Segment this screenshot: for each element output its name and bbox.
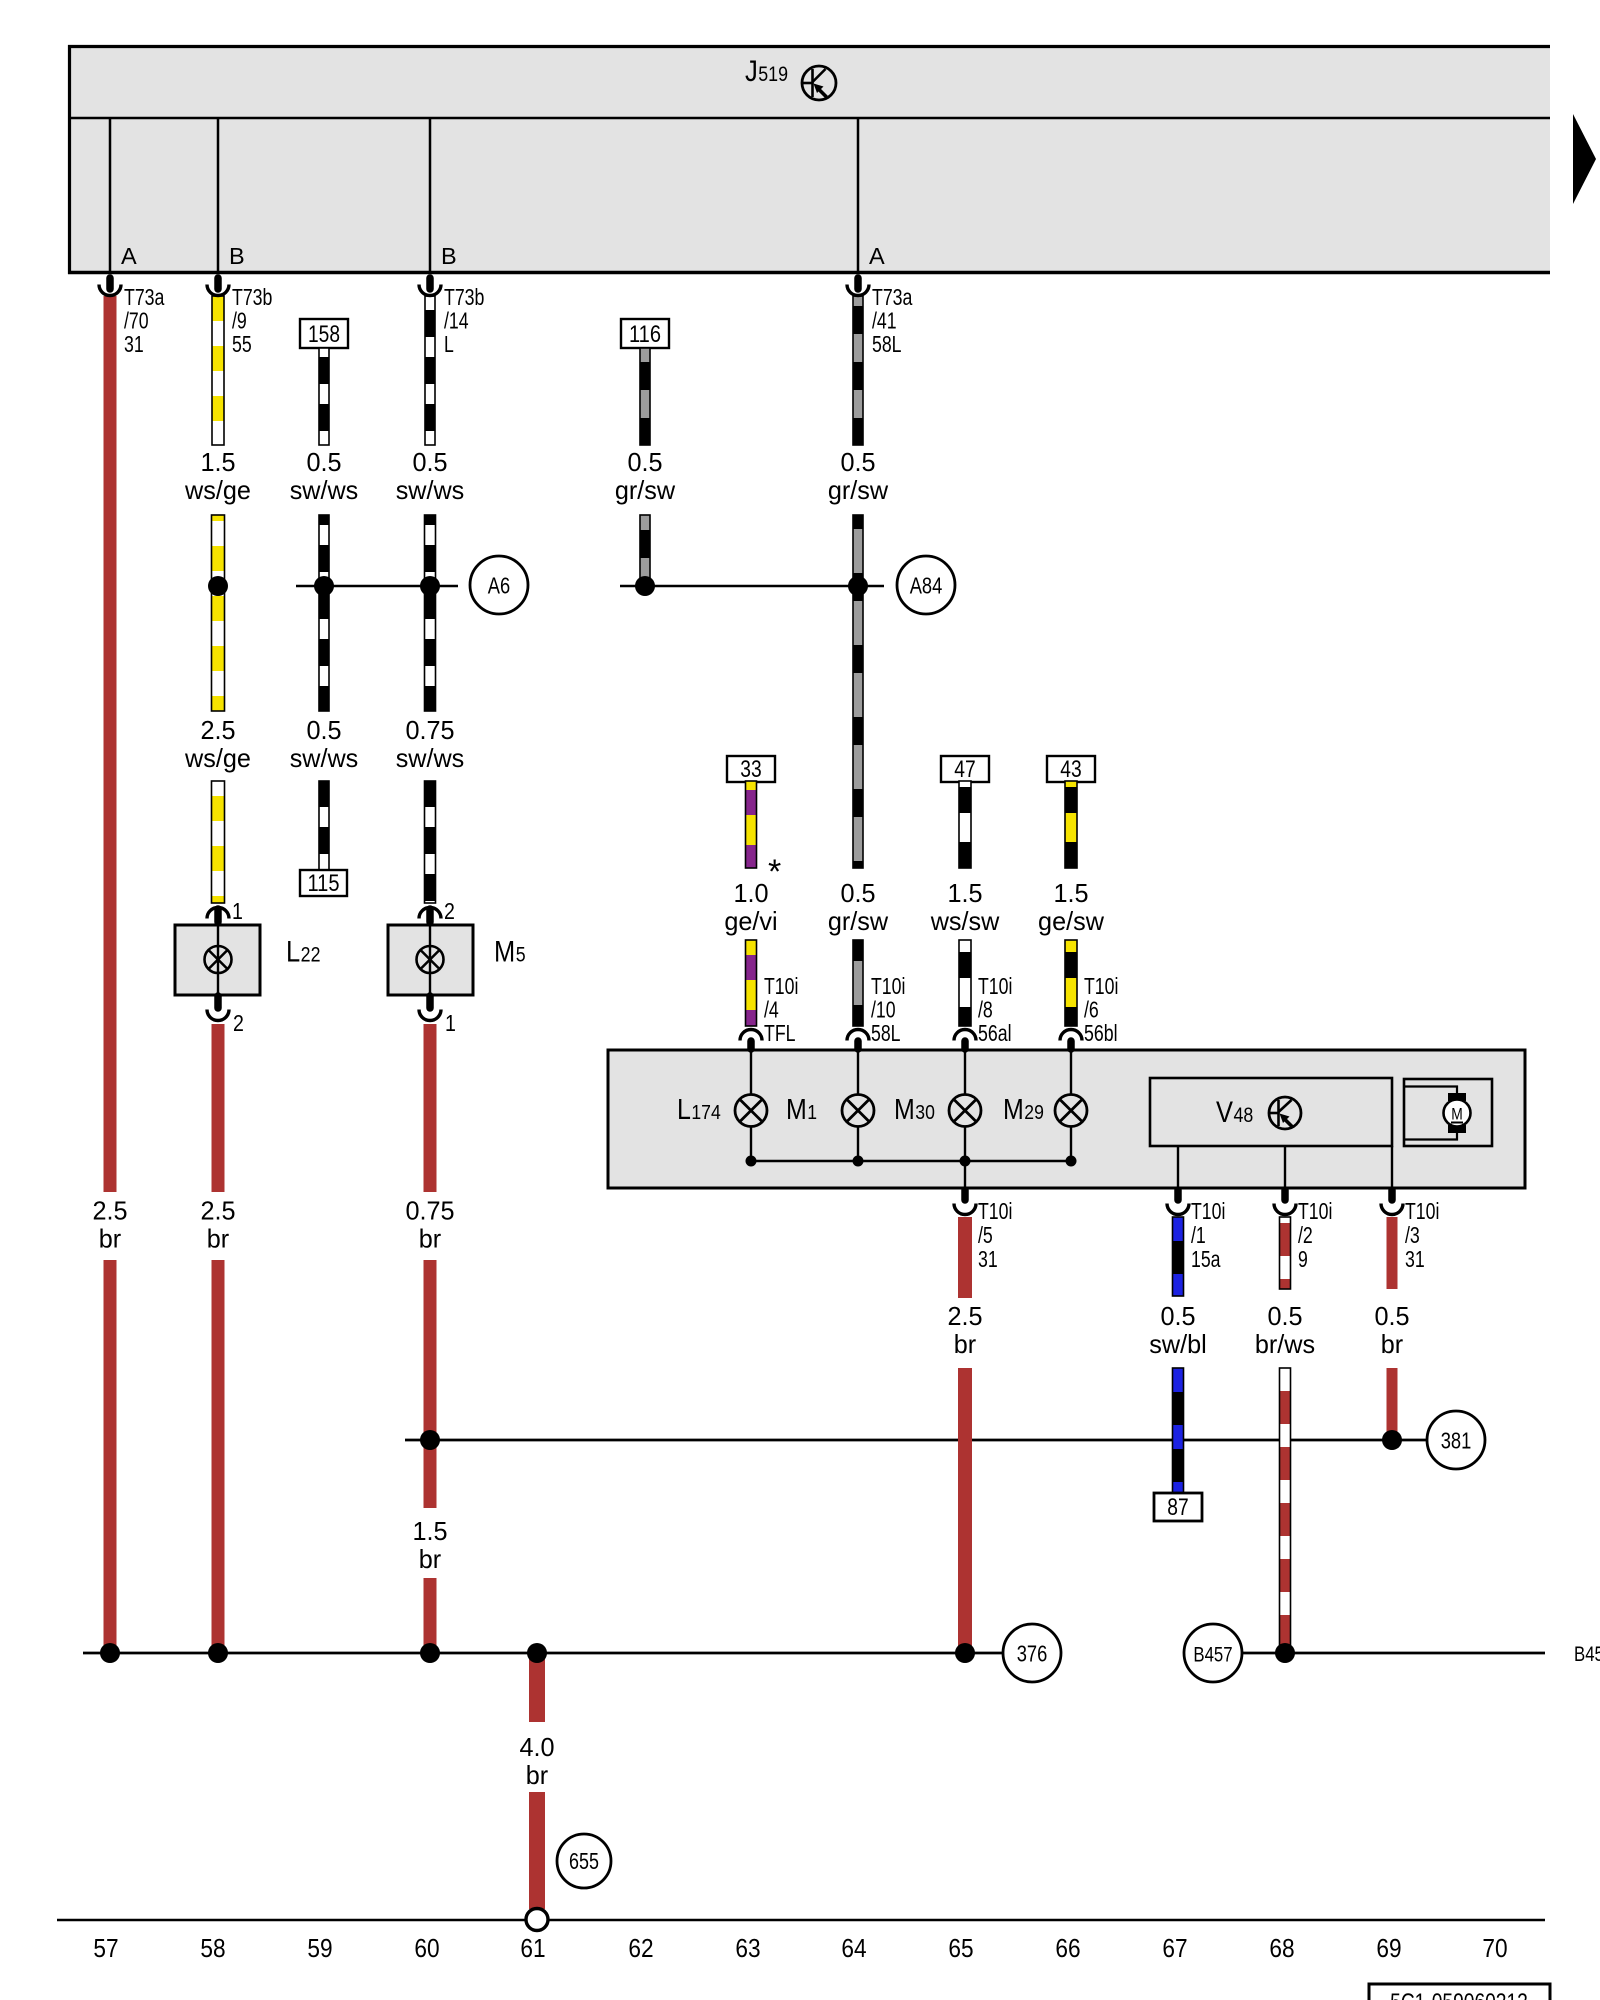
wire 1.5 ws/ge col58 <box>212 296 224 445</box>
svg-text:1.5: 1.5 <box>947 878 982 908</box>
svg-text:ws/ge: ws/ge <box>184 743 251 773</box>
junction ground bus col65 <box>955 1643 975 1663</box>
arrow continuation right <box>1573 114 1596 204</box>
svg-text:57: 57 <box>93 1933 118 1963</box>
lamp L174 daytime running light <box>735 1095 767 1127</box>
connector T10i/4 TFL <box>740 1030 762 1041</box>
wire 0.75 sw/ws col60 <box>425 515 436 711</box>
svg-text:381: 381 <box>1441 1428 1472 1454</box>
svg-text:2.5: 2.5 <box>947 1301 982 1331</box>
wire 2.5 br col58 lower <box>212 1260 225 1654</box>
svg-text:B457: B457 <box>1193 1643 1232 1667</box>
svg-text:519: 519 <box>758 63 788 86</box>
wire 1.0 ge/vi col63 upper <box>746 781 757 868</box>
connector T10i/1 15a <box>1174 1190 1182 1200</box>
svg-text:T73b: T73b <box>232 284 272 310</box>
svg-text:1: 1 <box>232 898 243 924</box>
svg-text:0.5: 0.5 <box>1374 1301 1409 1331</box>
svg-text:2.5: 2.5 <box>92 1196 127 1226</box>
svg-text:br: br <box>99 1224 122 1254</box>
wire connection line A84 <box>620 585 884 588</box>
svg-text:67: 67 <box>1162 1933 1187 1963</box>
wire 0.5 sw/ws col59 lower <box>319 781 329 871</box>
svg-text:/2: /2 <box>1298 1222 1313 1248</box>
svg-text:/5: /5 <box>978 1222 993 1248</box>
svg-text:43: 43 <box>1060 756 1081 783</box>
lamp M5 number plate light <box>419 908 441 919</box>
connector T73b/14 pin L <box>426 278 434 289</box>
svg-text:/10: /10 <box>871 997 896 1023</box>
svg-text:56al: 56al <box>978 1020 1012 1046</box>
connector T10i/8 56al <box>954 1030 976 1041</box>
wire ground bus B457 segment <box>1242 1652 1545 1655</box>
svg-text:0.5: 0.5 <box>840 447 875 477</box>
node 376 circle <box>1003 1624 1061 1682</box>
svg-text:T10i: T10i <box>978 973 1012 999</box>
connector T73a/70 pin 31 <box>106 278 114 289</box>
junction ground bus col58 <box>208 1643 228 1663</box>
wire 0.5 gr/sw col64 lower <box>853 940 863 1026</box>
svg-text:A84: A84 <box>910 573 943 599</box>
wire lamp drop M1 <box>857 1051 859 1095</box>
svg-text:gr/sw: gr/sw <box>828 475 889 505</box>
terminal box 33 <box>727 756 775 782</box>
svg-text:A6: A6 <box>488 573 510 599</box>
wire 4.0 br col61 upper <box>529 1653 545 1722</box>
svg-text:*: * <box>768 853 781 891</box>
wire J519 internal pin B col60 <box>429 118 432 272</box>
svg-text:22: 22 <box>301 944 321 967</box>
svg-text:sw/ws: sw/ws <box>396 475 465 505</box>
svg-text:br: br <box>419 1224 442 1254</box>
svg-text:0.5: 0.5 <box>306 715 341 745</box>
svg-text:15a: 15a <box>1191 1246 1221 1272</box>
svg-text:T10i: T10i <box>978 1198 1012 1224</box>
svg-text:br: br <box>207 1224 230 1254</box>
svg-text:5C1-059060212: 5C1-059060212 <box>1390 1989 1528 2000</box>
svg-text:376: 376 <box>1017 1641 1048 1667</box>
svg-text:55: 55 <box>232 331 252 357</box>
connector T10i/5 31 <box>961 1190 969 1200</box>
junction ground bus col57 <box>100 1643 120 1663</box>
wire J519 internal pin A col57 <box>109 118 112 272</box>
svg-text:br/ws: br/ws <box>1255 1329 1315 1359</box>
wire 1.5 ge/sw col66 upper <box>1065 781 1077 868</box>
wire 0.5 br/ws col68 lower <box>1280 1368 1291 1654</box>
svg-text:58L: 58L <box>872 331 902 357</box>
svg-text:2: 2 <box>233 1010 244 1036</box>
svg-text:br: br <box>526 1760 549 1790</box>
bottom coordinate axis line <box>57 1919 1545 1922</box>
svg-text:sw/ws: sw/ws <box>290 743 359 773</box>
wire 0.5 br col69 upper <box>1387 1217 1398 1289</box>
svg-text:69: 69 <box>1376 1933 1401 1963</box>
svg-text:A: A <box>121 243 137 269</box>
wire J519 internal pin B col58 <box>217 118 220 272</box>
svg-text:4.0: 4.0 <box>519 1732 554 1762</box>
node A84 circle <box>897 556 955 614</box>
svg-text:T73b: T73b <box>444 284 484 310</box>
wire 2.5 br col65 upper <box>958 1217 972 1298</box>
node 381 circle <box>1427 1411 1485 1469</box>
wire 2.5 br col57 lower <box>104 1260 117 1654</box>
svg-text:116: 116 <box>629 321 661 348</box>
wire 0.5 gr/sw col62 upper <box>640 348 650 445</box>
wire 1.5 ge/sw col66 lower <box>1065 940 1077 1026</box>
svg-text:63: 63 <box>735 1933 760 1963</box>
wire 0.75 br col60 from M5 <box>424 1024 437 1192</box>
scale numbers 57-70 <box>93 1933 1507 1963</box>
wire 0.75 br col60 mid <box>424 1260 437 1508</box>
svg-text:1.5: 1.5 <box>1053 878 1088 908</box>
motor symbol M box <box>1404 1079 1492 1146</box>
wire 0.5 sw/bl col67 lower <box>1173 1368 1184 1494</box>
node 655 circle <box>557 1834 611 1888</box>
svg-text:68: 68 <box>1269 1933 1294 1963</box>
svg-text:M: M <box>494 936 515 969</box>
svg-text:M: M <box>786 1094 807 1126</box>
svg-text:1.5: 1.5 <box>412 1516 447 1546</box>
svg-text:66: 66 <box>1055 1933 1080 1963</box>
terminal box 116 <box>621 319 669 348</box>
terminal box 43 <box>1047 756 1095 782</box>
lamp L22 number plate light <box>207 908 229 919</box>
svg-text:sw/bl: sw/bl <box>1149 1329 1207 1359</box>
svg-text:0.75: 0.75 <box>405 1196 454 1226</box>
svg-text:1: 1 <box>807 1101 817 1124</box>
connector T73b/9 pin 55 <box>214 278 222 289</box>
svg-text:0.5: 0.5 <box>840 878 875 908</box>
svg-text:31: 31 <box>978 1246 998 1272</box>
wire 1.5 br col60 lower <box>424 1578 437 1654</box>
svg-text:174: 174 <box>691 1101 720 1124</box>
wire 0.5 sw/ws col60 upper <box>425 296 435 445</box>
wire 2.5 ws/ge col58 <box>212 515 225 711</box>
svg-text:58L: 58L <box>871 1020 901 1046</box>
svg-text:158: 158 <box>308 321 340 348</box>
svg-text:0.5: 0.5 <box>412 447 447 477</box>
svg-text:/9: /9 <box>232 308 247 334</box>
svg-text:31: 31 <box>1405 1246 1425 1272</box>
svg-text:M: M <box>1003 1094 1024 1126</box>
svg-text:L: L <box>677 1094 691 1126</box>
svg-text:0.5: 0.5 <box>1160 1301 1195 1331</box>
svg-text:T73a: T73a <box>124 284 165 310</box>
svg-text:87: 87 <box>1167 1494 1188 1521</box>
svg-text:M: M <box>1451 1105 1463 1124</box>
svg-text:61: 61 <box>520 1933 545 1963</box>
wire 2.5 br col57 upper <box>104 296 117 1192</box>
control unit J519 onboard supply control unit box <box>68 45 1550 274</box>
connector T10i/3 31 <box>1388 1190 1396 1200</box>
wire 0.5 gr/sw col62 lower <box>640 515 650 586</box>
svg-text:1.5: 1.5 <box>200 447 235 477</box>
junction A84 line col62 <box>635 576 655 596</box>
junction A6 line col59 <box>314 576 334 596</box>
connector T10i/2 9 <box>1281 1190 1289 1200</box>
lamp M29 <box>1055 1095 1087 1127</box>
svg-text:T10i: T10i <box>871 973 905 999</box>
svg-text:br: br <box>954 1329 977 1359</box>
svg-text:0.5: 0.5 <box>306 447 341 477</box>
svg-text:70: 70 <box>1482 1933 1507 1963</box>
svg-text:L: L <box>444 331 454 357</box>
svg-text:ge/sw: ge/sw <box>1038 906 1104 936</box>
svg-text:47: 47 <box>954 756 975 783</box>
junction B457 bus col68 <box>1275 1643 1295 1663</box>
svg-text:T10i: T10i <box>1084 973 1118 999</box>
wire 0.5 gr/sw col64 middle <box>853 515 863 868</box>
svg-text:30: 30 <box>915 1101 935 1124</box>
junction ground bus col60 <box>420 1643 440 1663</box>
svg-text:62: 62 <box>628 1933 653 1963</box>
svg-text:sw/ws: sw/ws <box>396 743 465 773</box>
drawing number box 5C1-059060212 <box>1369 1984 1550 2000</box>
junction on ws/ge col58 <box>208 576 228 596</box>
wire 2.5 br col65 lower <box>958 1368 972 1654</box>
svg-text:sw/ws: sw/ws <box>290 475 359 505</box>
control unit V48 headlight range motor <box>1150 1078 1392 1146</box>
svg-text:65: 65 <box>948 1933 973 1963</box>
svg-text:655: 655 <box>569 1848 599 1874</box>
node B457 circle <box>1184 1624 1242 1682</box>
wire 0.5 gr/sw col64 upper <box>853 296 863 445</box>
lamp M1 left tail light <box>842 1095 874 1127</box>
svg-text:33: 33 <box>740 756 761 783</box>
svg-text:/6: /6 <box>1084 997 1099 1023</box>
wire 1.5 ws/sw col65 upper <box>959 781 971 868</box>
terminal box 158 <box>300 319 348 348</box>
junction A6 line col60 <box>420 576 440 596</box>
wire 0.75 sw/ws col60 to M5 <box>425 781 436 903</box>
wire 0.5 br col69 lower <box>1387 1368 1398 1440</box>
connector T10i/10 58L <box>847 1030 869 1041</box>
terminal box 47 <box>941 756 989 782</box>
svg-text:T10i: T10i <box>1298 1198 1332 1224</box>
svg-text:T10i: T10i <box>1191 1198 1225 1224</box>
svg-text:/8: /8 <box>978 997 993 1023</box>
wire internal bus of lamps <box>751 1160 1071 1162</box>
wire connection line A6 <box>296 585 458 588</box>
junction ground bus col61 <box>527 1643 547 1663</box>
wire 1.5 ws/sw col65 lower <box>959 940 971 1026</box>
junction dots lamp bus <box>746 1156 757 1167</box>
svg-text:TFL: TFL <box>764 1020 796 1046</box>
junction 381 line col69 <box>1382 1430 1402 1450</box>
svg-text:5: 5 <box>516 944 526 967</box>
wire V48 drop to T10i/1 <box>1177 1146 1179 1188</box>
wire lamp drop L174 <box>750 1051 752 1095</box>
svg-text:T10i: T10i <box>764 973 798 999</box>
svg-text:/70: /70 <box>124 308 149 334</box>
svg-text:48: 48 <box>1234 1104 1254 1127</box>
svg-text:B: B <box>441 243 457 269</box>
svg-text:B: B <box>229 243 245 269</box>
junction 381 line col60 <box>420 1430 440 1450</box>
lamp M30 brake light <box>949 1095 981 1127</box>
wire connection line to 381 <box>405 1439 1427 1442</box>
svg-text:0.5: 0.5 <box>627 447 662 477</box>
wire 1.0 ge/vi col63 lower <box>746 940 757 1026</box>
wire J519 internal pin A col64 <box>857 118 860 272</box>
wire 0.5 sw/bl col67 upper <box>1173 1217 1184 1296</box>
svg-text:/1: /1 <box>1191 1222 1206 1248</box>
svg-text:60: 60 <box>414 1933 439 1963</box>
svg-text:br: br <box>1381 1329 1404 1359</box>
svg-text:ge/vi: ge/vi <box>724 906 777 936</box>
svg-text:br: br <box>419 1544 442 1574</box>
svg-text:T73a: T73a <box>872 284 913 310</box>
svg-text:J: J <box>745 55 758 88</box>
svg-text:/4: /4 <box>764 997 779 1023</box>
svg-text:/41: /41 <box>872 308 897 334</box>
svg-text:A: A <box>869 243 885 269</box>
ground terminal open circle <box>526 1909 548 1931</box>
wire 0.5 sw/ws col59 middle <box>319 515 329 711</box>
wire V48 drop to T10i/2 <box>1284 1146 1286 1188</box>
svg-text:V: V <box>1216 1096 1233 1129</box>
svg-text:/3: /3 <box>1405 1222 1420 1248</box>
wire 2.5 br col58 from L22 <box>212 1024 225 1192</box>
component box light unit with L174 M1 M30 M29 V48 <box>608 1050 1525 1188</box>
svg-text:1.0: 1.0 <box>733 878 768 908</box>
svg-text:T10i: T10i <box>1405 1198 1439 1224</box>
svg-text:59: 59 <box>307 1933 332 1963</box>
svg-text:2.5: 2.5 <box>200 715 235 745</box>
svg-text:64: 64 <box>841 1933 866 1963</box>
svg-text:gr/sw: gr/sw <box>615 475 676 505</box>
terminal box 115 <box>300 870 347 896</box>
wire ground bus to 376 <box>83 1652 1003 1655</box>
connector T10i/6 56bl <box>1060 1030 1082 1041</box>
wire lamp drop M29 <box>1070 1051 1072 1095</box>
node A6 circle <box>470 556 528 614</box>
wire lamp drop M30 <box>964 1051 966 1095</box>
svg-text:56bl: 56bl <box>1084 1020 1118 1046</box>
svg-text:ws/ge: ws/ge <box>184 475 251 505</box>
svg-text:ws/sw: ws/sw <box>930 906 1000 936</box>
junction A84 line col64 <box>848 576 868 596</box>
svg-text:58: 58 <box>200 1933 225 1963</box>
svg-text:115: 115 <box>308 870 340 897</box>
svg-text:29: 29 <box>1024 1101 1044 1124</box>
svg-text:1: 1 <box>445 1010 456 1036</box>
wire 0.5 sw/ws col59 upper <box>319 348 329 445</box>
svg-text:9: 9 <box>1298 1246 1308 1272</box>
svg-text:L: L <box>286 936 300 969</box>
svg-text:31: 31 <box>124 331 144 357</box>
wire 4.0 br col61 lower <box>529 1792 545 1909</box>
svg-text:/14: /14 <box>444 308 469 334</box>
connector T73a/41 pin 58L <box>854 278 862 289</box>
svg-text:gr/sw: gr/sw <box>828 906 889 936</box>
terminal box 87 <box>1154 1493 1202 1521</box>
svg-text:0.5: 0.5 <box>1267 1301 1302 1331</box>
svg-text:2: 2 <box>444 898 455 924</box>
wire V48 drop to T10i/3 <box>1391 1146 1393 1188</box>
svg-text:0.75: 0.75 <box>405 715 454 745</box>
wire 2.5 ws/ge col58 to L22 <box>212 781 225 903</box>
wire 0.5 br/ws col68 upper <box>1280 1217 1291 1289</box>
svg-text:2.5: 2.5 <box>200 1196 235 1226</box>
svg-text:M: M <box>894 1094 915 1126</box>
svg-text:B457: B457 <box>1574 1643 1600 1666</box>
